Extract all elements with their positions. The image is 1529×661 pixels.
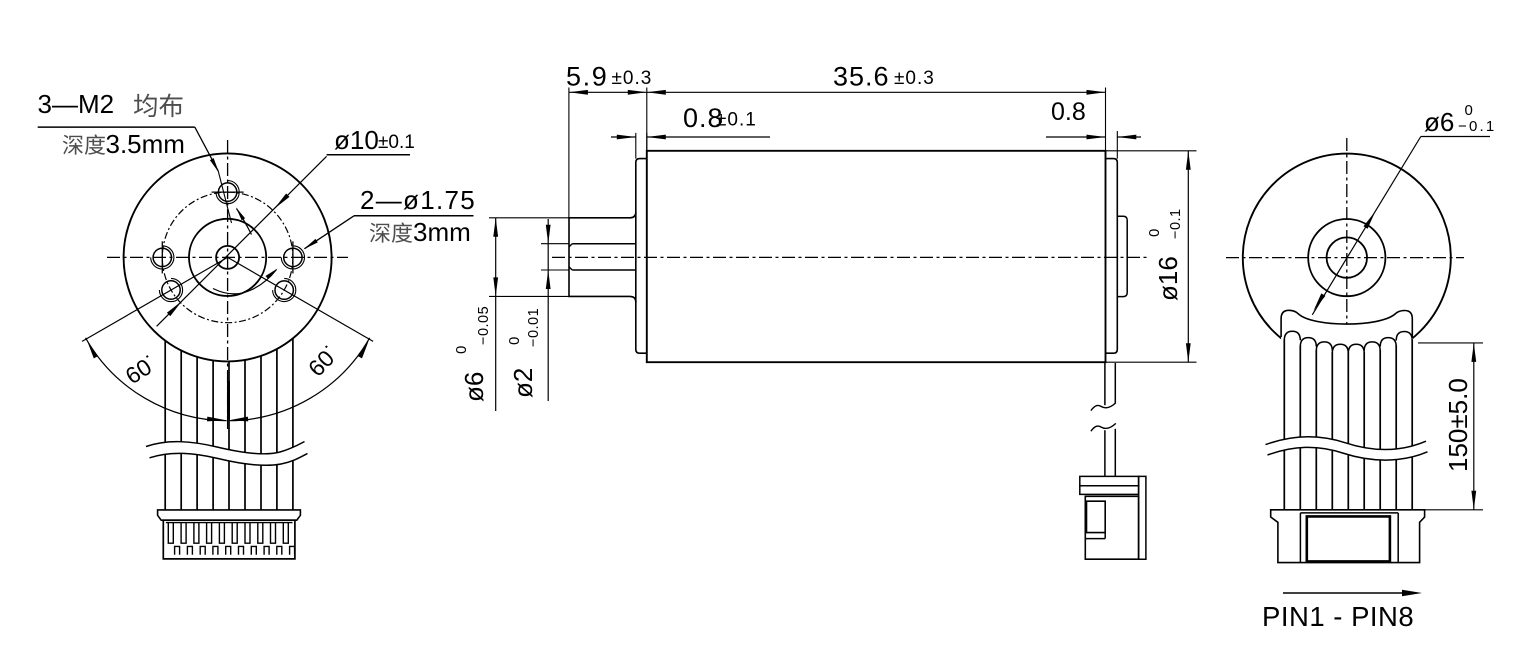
svg-text:−0.1: −0.1 <box>1168 208 1184 239</box>
front view: curved mini leader at right hole <box>213 270 277 294</box>
front view: label depth 3.5mm text <box>63 135 83 155</box>
svg-text:0.8: 0.8 <box>1051 98 1086 126</box>
dim o16: dimension line <box>1187 151 1189 362</box>
front view: cable break band <box>146 442 308 466</box>
front view: cable connector body <box>163 520 295 559</box>
rear view: o6 leader diagonal <box>1312 137 1421 315</box>
svg-text:ø6: ø6 <box>1424 107 1454 137</box>
front view: label depth 3mm <box>370 223 390 243</box>
front view: connector teeth row 1 <box>166 522 293 524</box>
dim 5.9: extension line left <box>568 88 570 218</box>
side view: shaft bore o2 with chamfer <box>572 243 635 245</box>
svg-text:5.9: 5.9 <box>566 62 608 92</box>
front view: horizontal centerline <box>107 256 348 258</box>
side view: lead wire lower <box>1104 430 1106 476</box>
dim o16 arrowheads <box>1186 151 1191 170</box>
side view: front bearing boss o6 <box>569 212 636 303</box>
rear view: cable sheath mask <box>1281 310 1412 344</box>
svg-text:0: 0 <box>1465 102 1473 119</box>
svg-text:150±5.0: 150±5.0 <box>1443 378 1473 472</box>
svg-text:−0.1: −0.1 <box>1458 118 1496 135</box>
dim 150: extension lines <box>1418 342 1483 344</box>
front view: 60deg dimension arc left <box>86 338 227 421</box>
front view: curved mini leader at top hole <box>237 209 252 235</box>
front view: cable connector cap <box>158 510 301 520</box>
dim 0.8L: extension above body corner <box>646 133 648 151</box>
dim o2: dimension line <box>547 219 549 401</box>
rear view: motor outline circle o16 <box>1243 154 1451 362</box>
dim 35.6: extension line right <box>1105 88 1107 151</box>
rear view: vertical centerline <box>1346 138 1348 360</box>
front view: label 3-M2 leader <box>38 126 195 128</box>
svg-text:PIN1 - PIN8: PIN1 - PIN8 <box>1262 601 1414 632</box>
side view: wire break squiggles <box>1091 403 1116 411</box>
rear view: wire domes <box>1284 331 1300 340</box>
front view: radiating line at 210 deg <box>82 257 228 341</box>
svg-text:3.5mm: 3.5mm <box>106 129 185 159</box>
dim 150: dimension line <box>1473 343 1475 510</box>
rear view: connector inner verticals <box>1299 513 1301 563</box>
front view: vertical centerline <box>227 140 229 430</box>
svg-text:ø10: ø10 <box>334 125 379 155</box>
front view: mounting holes 3-M2 and 2-o1.75 (double circles) <box>218 183 236 201</box>
side view: connector top bar <box>1080 476 1139 485</box>
dim 0.8R: extension above rear cap <box>1116 131 1118 159</box>
front view: o10 arrowheads at bolt circle <box>274 194 289 209</box>
side view: front end cap (0.8mm) <box>636 159 647 354</box>
rear view: o6 leader underline <box>1421 136 1490 138</box>
rear view: horizontal centerline <box>1226 257 1464 259</box>
front view: radiating line at 330 deg <box>228 257 374 341</box>
svg-text:0: 0 <box>506 337 523 345</box>
svg-text:−0.01: −0.01 <box>526 308 542 347</box>
front view: ribbon cable wires (8 wires) <box>164 341 166 511</box>
side view: connector latch <box>1087 501 1106 532</box>
svg-text:±0.1: ±0.1 <box>716 110 757 131</box>
dim o16: extension lines <box>1106 150 1197 152</box>
rear view: pin order arrow <box>1283 592 1404 594</box>
svg-text:ø2: ø2 <box>508 368 538 398</box>
rear view: o6 leader arrowheads <box>1364 211 1376 229</box>
side view: connector right flange <box>1139 476 1146 559</box>
rear view: cable body mask <box>1284 338 1414 508</box>
svg-text:±0.1: ±0.1 <box>378 132 415 153</box>
front view: bolt circle o10 (dash-dot) <box>162 192 293 323</box>
rear view: connector window <box>1307 516 1390 561</box>
dim 35.6/5.9: extension line at front face <box>646 88 648 151</box>
svg-text:3—M2: 3—M2 <box>38 89 115 119</box>
side view: rear bearing bump <box>1117 216 1127 296</box>
rear view: cable wires <box>1283 339 1285 510</box>
dim o6 arrowheads <box>493 218 498 237</box>
dim 0.8L: extension above cap <box>635 133 637 159</box>
dim 0.8R: dimension line right part <box>1117 136 1141 138</box>
svg-text:ø6: ø6 <box>459 372 489 402</box>
dim o6: extension lines <box>489 217 569 219</box>
rear view: inner circle <box>1327 237 1367 277</box>
dim o2 arrowheads <box>546 225 551 244</box>
front view: o10 dimension diagonal line <box>157 156 327 326</box>
dim 35.6 arrowheads <box>647 90 666 95</box>
front view: bearing boss circle o6 <box>189 219 266 296</box>
rear view: boss circle o6 <box>1308 219 1385 296</box>
dim 0.8L: dimension line left part <box>611 136 636 138</box>
svg-text:2—ø1.75: 2—ø1.75 <box>360 185 476 215</box>
svg-text:±0.3: ±0.3 <box>894 68 935 89</box>
side view: rear end cap (0.8mm) <box>1106 159 1118 354</box>
rear view: connector outline <box>1271 510 1425 563</box>
dim 5.9 arrowheads <box>569 90 588 95</box>
svg-text:0: 0 <box>453 346 470 354</box>
side view: connector latch step <box>1085 538 1105 540</box>
side view: connector second bar <box>1080 486 1139 495</box>
side view: motor body rectangle <box>647 151 1106 362</box>
dim 0.8R: dimension line left part <box>1046 136 1106 138</box>
front view: connector teeth row 2 <box>175 546 295 554</box>
front view: shaft hole circle o2 <box>216 246 239 269</box>
rear view: cable break band <box>1266 437 1428 460</box>
svg-text:ø16: ø16 <box>1153 256 1183 301</box>
rear view: cable sheath outline <box>1281 310 1412 337</box>
side view: centre axis (dash-dot) <box>552 256 1147 258</box>
front view: angular dimension edge (solid, on vertical centerline) <box>227 381 230 420</box>
side view: lead wire upper <box>1104 363 1106 405</box>
dim o6: dimension line <box>495 218 497 411</box>
dim 150 arrowheads <box>1471 343 1476 362</box>
svg-text:−0.05: −0.05 <box>476 306 492 345</box>
svg-text:±0.3: ±0.3 <box>612 68 653 89</box>
svg-text:3mm: 3mm <box>413 217 471 247</box>
side view: connector body <box>1085 496 1138 559</box>
dim o2: extension lines <box>541 243 569 245</box>
front view: 60deg arc arrowheads <box>87 341 98 359</box>
front view: 60deg dimension arc right <box>229 338 370 421</box>
svg-text:35.6: 35.6 <box>833 62 890 92</box>
dim 0.8L: dimension line right part <box>647 136 770 138</box>
front view: motor body outline circle o16 <box>124 153 332 361</box>
svg-text:0: 0 <box>1146 229 1163 237</box>
dim 5.9+35.6: dimension line <box>569 91 1106 93</box>
